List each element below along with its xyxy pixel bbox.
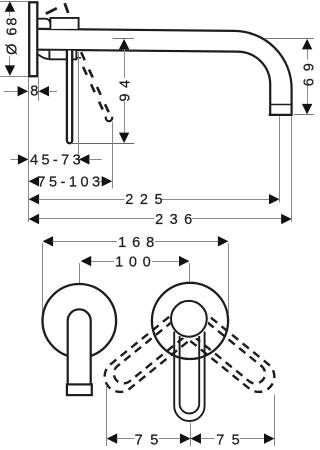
handle lever (closed position)	[67, 51, 72, 144]
extension line right swivel tip	[274, 395, 276, 447]
extension line outlet center	[279, 116, 281, 202]
handle lever open position dashes (left edge)	[83, 67, 103, 110]
dimension 45-73 arrow right	[79, 154, 90, 164]
spout bottom edge and inner bend	[38, 50, 270, 114]
dimension 45-73 leader right	[89, 159, 102, 161]
dimension 69 line upper	[307, 49, 309, 59]
dimension 75 right arrow right	[264, 433, 275, 443]
dimension 75-103 leader right	[99, 181, 102, 183]
extension line wall face	[28, 78, 30, 223]
spout inner ring (front)	[171, 301, 207, 337]
valve body step line	[76, 57, 81, 59]
extension line spout center	[190, 423, 192, 446]
extension line open lever tip	[112, 122, 114, 189]
extension line 168 right	[228, 243, 230, 313]
dimension 75-103 arrow right	[102, 176, 113, 186]
spout top edge and outer bend	[38, 29, 291, 114]
dimension Ø68 arrow down	[5, 65, 15, 76]
extension line 100 left	[79, 263, 81, 283]
dimension 75 right leader right	[240, 438, 265, 440]
svg-text:45-73: 45-73	[30, 152, 84, 168]
dimension 8 leader left	[4, 91, 20, 93]
spout body fill	[38, 28, 292, 115]
svg-text:75-103: 75-103	[37, 174, 103, 190]
dimension 100 leader right	[152, 261, 180, 263]
dimension 75 right leader left	[201, 438, 215, 440]
svg-text:69: 69	[301, 56, 317, 86]
svg-text:100: 100	[115, 255, 156, 271]
handle lever open position dash (upper) 1	[46, 8, 57, 14]
spout swivel position dashed left	[98, 308, 199, 398]
valve body under spout	[49, 51, 76, 60]
svg-text:75: 75	[216, 433, 247, 449]
dimension 94 arrow down	[119, 133, 129, 144]
dimension Ø68 extension tick top	[0, 1, 28, 3]
dimension 225 arrow right	[269, 194, 280, 204]
dimension 75 left leader right	[159, 438, 181, 440]
extension line spout end	[291, 116, 293, 222]
extension line 168 left	[42, 243, 44, 313]
dimension 75-103 arrow left	[29, 176, 39, 186]
handle lever tip band (front)	[67, 384, 92, 395]
spout escutcheon circle (front)	[152, 283, 228, 359]
svg-text:236: 236	[155, 212, 199, 228]
dimension 75 right arrow left	[191, 433, 202, 443]
outlet bottom edge	[269, 114, 293, 116]
dimension 236 arrow left	[29, 214, 39, 224]
dimension 75 left arrow left	[107, 433, 118, 443]
dimension 75 left leader left	[117, 438, 135, 440]
svg-text:94: 94	[118, 74, 134, 101]
handle escutcheon circle (front)	[43, 284, 117, 358]
dimension 168 leader left	[53, 241, 117, 243]
dimension 94 arrow up	[119, 39, 129, 50]
dimension 8 leader right	[49, 91, 58, 93]
dimension 94 line lower	[124, 102, 126, 134]
extension line left swivel tip	[106, 385, 108, 446]
cartridge cover	[50, 18, 78, 29]
dimension 168 arrow right	[218, 236, 229, 246]
dimension Ø68 line	[9, 11, 11, 16]
dimension 69 top extension	[265, 38, 314, 40]
handle lever open position dash (upper) 2	[65, 3, 69, 13]
dimension 225 arrow left	[29, 194, 39, 204]
dimension Ø68 extension tick bottom	[0, 76, 28, 78]
dimension 69 arrow up	[302, 39, 312, 50]
dimension 75 left arrow right	[180, 433, 191, 443]
extension line lever tip	[78, 52, 80, 163]
escutcheon wall plate (edge-on)	[29, 2, 37, 76]
dimension 236 leader right	[192, 218, 282, 220]
dimension 45-73 leader left	[11, 159, 20, 161]
dimension 69 bottom extension	[294, 114, 314, 116]
dimension 225 leader right	[162, 199, 270, 201]
dimension 236 arrow right	[281, 214, 292, 224]
dimension 168 arrow left	[43, 236, 54, 246]
mounting collar bottom curve	[38, 55, 48, 59]
dimension 69 arrow down	[302, 104, 312, 115]
dimension 94 top extension	[113, 38, 134, 40]
svg-text:168: 168	[118, 235, 160, 251]
extension line 100 right	[189, 263, 191, 281]
svg-text:Ø 68: Ø 68	[4, 16, 20, 55]
dimension 168 leader right	[155, 241, 218, 243]
dimension Ø68 line lower	[9, 57, 11, 66]
mounting collar top edge	[39, 19, 51, 24]
dimension 8 arrow left	[18, 86, 29, 96]
dimension 8 arrow right	[39, 86, 50, 96]
aerator band line	[270, 104, 292, 106]
dimension 94 bottom extension	[71, 143, 134, 145]
spout straight position outer outline (front)	[174, 332, 204, 422]
spout swivel position dashed right	[180, 308, 281, 398]
handle lever open position dashes (right edge)	[81, 52, 111, 116]
dimension 100 arrow left	[81, 256, 92, 266]
dimension 100 arrow right	[179, 256, 190, 266]
spout straight position inner outline (front)	[180, 336, 200, 413]
dimension 236 leader left	[39, 218, 154, 220]
dimension 45-73 arrow left	[18, 154, 29, 164]
extension line plate front	[38, 78, 40, 102]
dimension 225 leader left	[39, 199, 125, 201]
svg-text:8: 8	[30, 84, 38, 100]
svg-text:75: 75	[135, 433, 166, 449]
dimension Ø68 arrow up	[5, 1, 15, 12]
handle lever open position tip arc	[106, 117, 112, 122]
dimension 100 leader left	[91, 261, 114, 263]
dimension 94 line upper	[124, 49, 126, 78]
handle lever (front)	[68, 309, 91, 384]
dimension 69 line lower	[307, 86, 309, 105]
